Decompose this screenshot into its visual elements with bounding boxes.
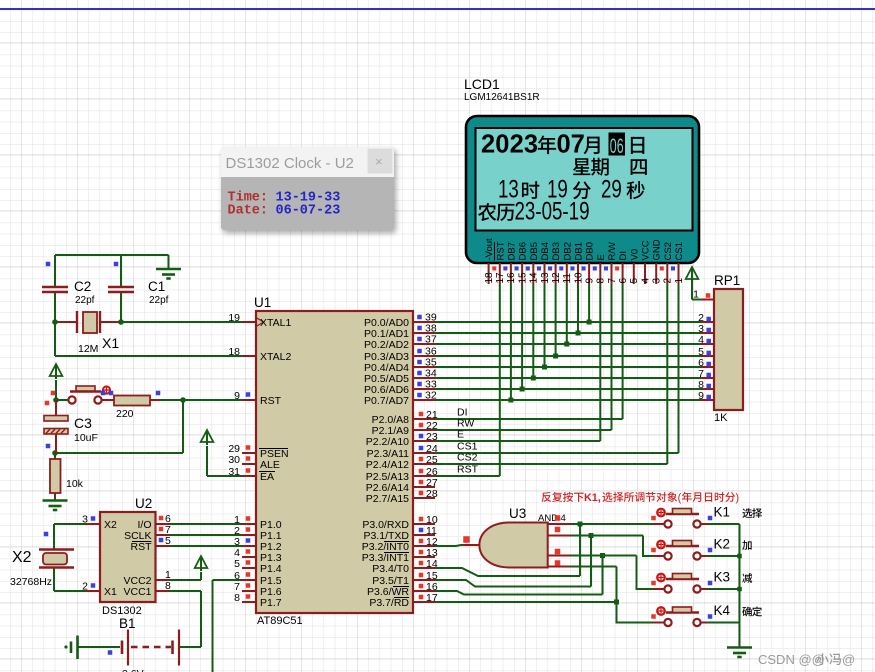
svg-text:9: 9 [584,278,595,284]
svg-text:K4: K4 [714,603,731,618]
node XTAL1 wire [52,319,58,325]
reset button [53,397,59,403]
svg-text:4: 4 [561,513,566,524]
svg-text:U1: U1 [254,295,271,310]
svg-text:RST: RST [260,395,282,407]
svg-text:RST: RST [495,241,506,260]
svg-text:K3: K3 [714,570,731,585]
svg-text:23-05-19: 23-05-19 [515,197,590,225]
svg-text:31: 31 [228,466,240,478]
svg-text:K2: K2 [714,537,731,552]
ground 10k [54,498,56,501]
svg-text:@: @ [842,652,855,667]
lcd text line2 xingqi si [573,158,590,175]
svg-text:XTAL2: XTAL2 [260,351,291,363]
svg-text:CSDN @@: CSDN @@ [758,652,825,667]
wire C1 branch [120,255,122,286]
svg-text:7: 7 [607,278,618,284]
svg-text:P0.2/AD2: P0.2/AD2 [364,339,409,351]
svg-text:X1: X1 [102,335,119,351]
svg-text:X1: X1 [104,586,117,598]
wire K3 net [570,555,637,557]
svg-text:C2: C2 [74,279,91,294]
svg-text:1: 1 [674,278,685,284]
capacitor C2 [42,286,68,289]
lcd text line4 nongli [478,203,496,221]
svg-text:2023: 2023 [481,131,538,159]
svg-text:9: 9 [234,390,240,402]
svg-text:10uF: 10uF [74,432,98,444]
svg-text:): ) [736,492,740,504]
svg-text:1K: 1K [714,412,728,424]
gate inputs [548,523,570,525]
svg-text:DB1: DB1 [574,242,585,260]
svg-text:K1: K1 [714,505,731,520]
svg-text:VCC1: VCC1 [123,586,151,598]
svg-text:DB0: DB0 [585,242,596,260]
svg-text:DS1302 Clock - U2: DS1302 Clock - U2 [226,155,354,172]
capacitor C1 [108,286,134,289]
svg-text:E: E [596,254,607,260]
lcd LCD1 shell [466,116,699,263]
svg-text:06-07-23: 06-07-23 [276,204,341,219]
lcd screen [476,128,693,231]
power VCC arrow RP1 [692,299,701,301]
svg-text:P1.7: P1.7 [260,597,282,609]
wire RST to C3 [182,400,184,453]
svg-text:RST: RST [131,541,153,553]
svg-text:EA: EA [260,471,274,483]
U1 left pins [242,321,256,323]
resistor pack RP1 1K [714,289,743,410]
svg-text:8: 8 [234,592,240,604]
wire K1 net [570,523,654,525]
svg-text:18: 18 [228,346,240,358]
lcd text line1 2023-07-06 [481,131,585,159]
svg-text:X2: X2 [12,549,32,566]
svg-text:220: 220 [116,408,134,420]
svg-text:06: 06 [610,134,624,158]
svg-text:R/W: R/W [607,242,618,261]
annotation red text [542,492,552,502]
svg-text:P3.7/RD: P3.7/RD [369,597,409,609]
svg-text:RST: RST [457,464,479,476]
rtc U2 DS1302 body [100,512,156,602]
lcd inverted 06 box [609,133,626,156]
button K1 [654,523,665,525]
wire RST to U1 [160,399,242,401]
svg-text:9: 9 [698,390,704,402]
svg-text:U3: U3 [509,506,526,521]
svg-text:E: E [457,429,464,441]
lcd text line3 time [498,175,622,203]
svg-text:3.6V: 3.6V [122,668,144,672]
U1 right pins P2 [413,418,435,420]
button K3 [654,588,665,590]
crystal X2 32768Hz [54,523,86,525]
svg-text:16: 16 [506,272,517,284]
svg-text:15: 15 [517,272,528,284]
svg-text:3: 3 [652,278,663,284]
svg-text:P2.7/A15: P2.7/A15 [366,493,409,505]
button K2 [654,555,665,557]
svg-text:ALE: ALE [260,459,280,471]
capacitor C3 10uF [55,400,57,416]
svg-text:4: 4 [698,334,704,346]
svg-text:V0: V0 [629,249,640,261]
svg-text:VCC: VCC [641,240,652,260]
svg-text:22pf: 22pf [75,295,95,306]
svg-text:4: 4 [640,278,651,284]
wire VCC1 to battery [170,590,202,592]
popup DS1302 Clock window [221,147,394,230]
U1 right pins P0 [413,321,435,323]
node XTAL2 wire [55,355,242,357]
wire C2 branch [54,255,56,286]
svg-text:6: 6 [618,278,629,284]
svg-text:22pf: 22pf [149,295,169,306]
lcd control verticals [499,284,501,476]
svg-text:P2.4/A12: P2.4/A12 [366,459,409,471]
svg-text:5: 5 [629,278,640,284]
svg-text:X2: X2 [104,519,117,531]
wire K4 net [570,566,617,568]
svg-text:C3: C3 [74,415,92,431]
bus P0 wires to RP1 [435,321,701,323]
button K4 [654,622,665,624]
svg-text:B1: B1 [119,616,136,631]
svg-text:19: 19 [228,312,240,324]
sheet border line [0,8,875,10]
svg-text:Date:: Date: [228,204,269,219]
svg-text:12M: 12M [78,343,98,355]
svg-text:LGM12641BS1R: LGM12641BS1R [464,92,540,103]
svg-text:C1: C1 [148,279,165,294]
svg-text:5: 5 [234,558,240,570]
wires U2 to U1 P1 [170,523,243,525]
svg-text:12: 12 [551,272,562,284]
svg-text:10: 10 [573,272,584,284]
svg-text:28: 28 [426,488,438,500]
wire K2 net [570,535,643,537]
svg-text:8: 8 [596,278,607,284]
svg-text:CS1: CS1 [674,242,685,260]
mcu U1 AT89C51 body [256,311,413,613]
gate U3 AND body [479,523,547,568]
svg-text:P3.4/T0: P3.4/T0 [372,563,409,575]
svg-text:GND: GND [652,239,663,260]
ground top rail [168,255,170,269]
gate output wire [435,545,463,546]
svg-text:P2.2/A10: P2.2/A10 [366,436,409,448]
svg-text:×: × [375,154,383,169]
svg-text:17: 17 [495,272,506,284]
svg-text:LCD1: LCD1 [464,76,500,92]
svg-text:DI: DI [618,251,629,261]
svg-text:29: 29 [601,175,622,203]
ground buttons [739,644,741,648]
svg-text:DB6: DB6 [518,242,529,260]
wire C2-C1-ground top rail [55,254,169,256]
wire P1.5 long [213,579,243,581]
svg-text:14: 14 [529,272,540,284]
svg-text:CS2: CS2 [457,452,478,464]
U1 right pins P3 [413,523,435,525]
svg-text:AT89C51: AT89C51 [257,615,303,627]
svg-text:DB4: DB4 [540,242,551,260]
svg-text:DB2: DB2 [562,242,573,260]
svg-text:DB5: DB5 [529,242,540,260]
svg-text:(: ( [678,492,682,504]
svg-text:2: 2 [663,278,674,284]
svg-text:DB7: DB7 [506,242,517,260]
power VCC arrow EA [201,430,214,442]
svg-text:U2: U2 [135,496,152,511]
power VCC arrow U2 [195,556,208,568]
svg-text:P0.7/AD7: P0.7/AD7 [364,395,409,407]
button common rail [739,524,741,648]
crystal X1 12M [55,321,77,323]
svg-text:13: 13 [540,272,551,284]
svg-text:DB3: DB3 [551,242,562,260]
resistor 10k [54,453,56,459]
svg-text:18: 18 [484,272,495,284]
resistor R 220 [102,399,114,401]
svg-text:10k: 10k [66,478,84,490]
power VCC arrow reset [50,364,63,376]
svg-text:P1.4: P1.4 [260,563,282,575]
svg-text:30: 30 [228,454,240,466]
svg-text:XTAL1: XTAL1 [260,317,291,329]
U2 pins [86,523,100,525]
lcd data verticals [510,284,512,400]
svg-text:32768Hz: 32768Hz [10,576,52,588]
svg-text:11: 11 [562,273,573,284]
svg-text:-Vout: -Vout [484,238,495,261]
svg-text:RP1: RP1 [714,273,740,288]
svg-text:CS2: CS2 [663,242,674,260]
svg-text:K1,: K1, [584,492,601,504]
svg-text:07: 07 [557,131,585,159]
